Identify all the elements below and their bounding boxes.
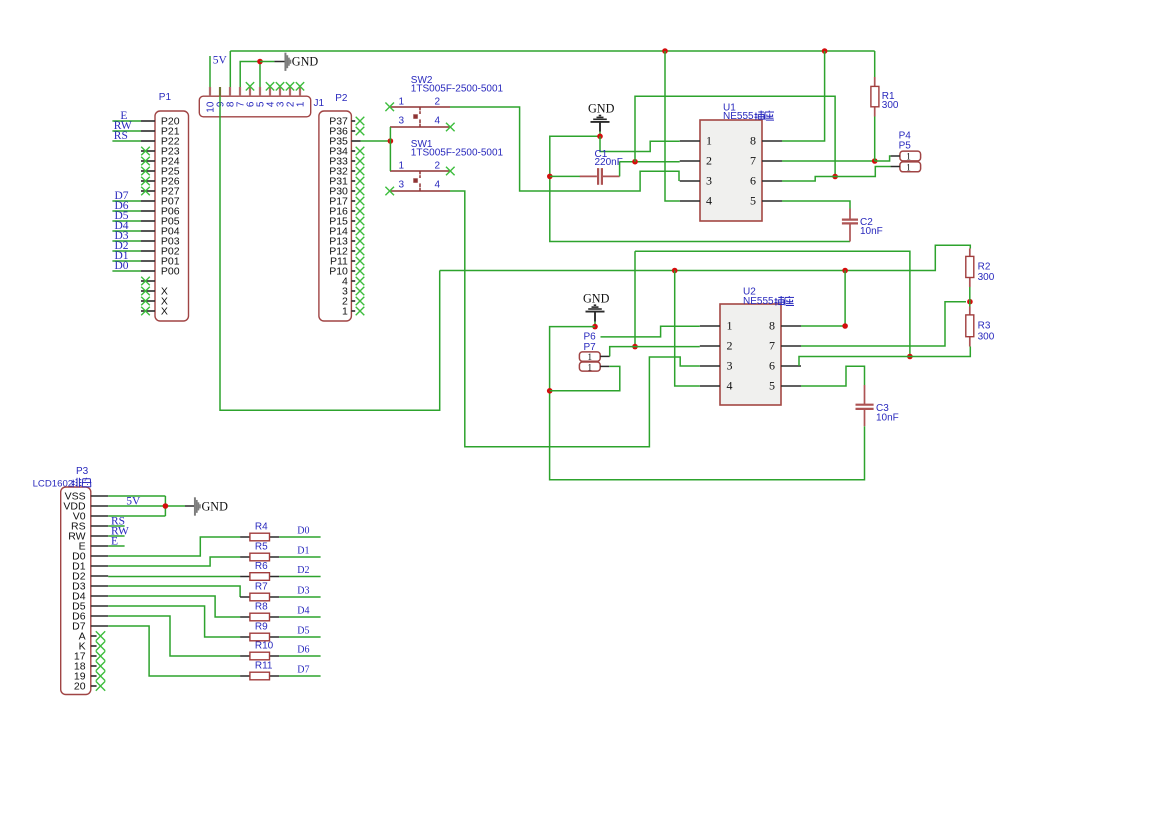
svg-text:D4: D4 [297, 606, 309, 617]
U2 refdes label [743, 287, 756, 298]
U1 value label NE555 socket [723, 111, 774, 122]
connector P7 box [579, 362, 609, 373]
wire P3 D5 to R9 [108, 606, 240, 637]
svg-text:NE555: NE555 [743, 296, 774, 307]
capacitor C1 [580, 168, 620, 185]
svg-text:E: E [111, 535, 118, 547]
R1 labels [882, 91, 899, 111]
junction P35 node [388, 138, 394, 144]
wire U1 pin8 riser [782, 51, 825, 141]
J1 pin stubs [210, 87, 300, 96]
svg-text:3: 3 [727, 359, 733, 373]
wire J1 pin9 down and up to VCC2 rail [220, 96, 440, 410]
wire P3 RW stub [108, 535, 124, 537]
svg-text:D0: D0 [115, 260, 129, 272]
net label 5V (P3) [126, 495, 141, 507]
wire C1 left lead [550, 175, 580, 177]
wire P3 D7 to R11 [108, 626, 240, 676]
svg-text:5: 5 [750, 194, 756, 208]
svg-text:300: 300 [882, 100, 899, 111]
junction U2 pin8 corner [842, 323, 848, 329]
svg-text:5: 5 [769, 379, 775, 393]
wire J1 pin7 to GND [240, 62, 260, 88]
resistor R9 [240, 633, 279, 641]
svg-text:5V: 5V [213, 55, 228, 67]
wire U1 pin2 line [620, 161, 680, 163]
svg-text:1TS005F-2500-5001: 1TS005F-2500-5001 [411, 148, 504, 159]
svg-text:220nF: 220nF [595, 157, 623, 168]
net label D5 (output) [297, 626, 309, 637]
junction J1 GND node [257, 59, 263, 65]
net label D6 [115, 200, 129, 212]
ground GND arrow (top) [260, 53, 318, 71]
wire P3 D0 to R4 [108, 537, 240, 556]
J1 no-connect X marks [246, 82, 304, 90]
svg-text:R8: R8 [255, 602, 268, 613]
P7 refdes label [584, 342, 597, 353]
svg-text:5V: 5V [126, 495, 141, 507]
svg-text:1TS005F-2500-5001: 1TS005F-2500-5001 [411, 84, 504, 95]
resistor R6 [240, 573, 279, 581]
wire C1 right riser to U1 pin2 [619, 162, 621, 177]
svg-text:3: 3 [399, 116, 405, 127]
junction C1 left node [547, 174, 553, 180]
C1 labels [595, 149, 623, 168]
svg-text:D7: D7 [297, 665, 309, 676]
SW2 pin1 no-connect X [385, 103, 394, 112]
IC U2 box [700, 304, 801, 405]
C2 labels [860, 217, 883, 237]
svg-text:D2: D2 [297, 565, 309, 576]
net label D3 [115, 230, 129, 242]
wire J1 pin5 riser [259, 62, 261, 88]
net label D3 (output) [297, 586, 309, 597]
wire U2 pin7 to R2/R3 mid [801, 302, 966, 346]
U1 refdes label [723, 103, 736, 114]
junction GND1 node [597, 134, 603, 140]
P1 no-connect X marks [141, 147, 150, 316]
svg-text:2: 2 [435, 97, 441, 108]
wire P6 pin riser to U2 pin2 line [610, 347, 700, 357]
svg-text:R6: R6 [255, 561, 268, 572]
svg-text:P00: P00 [161, 266, 180, 278]
net label RW (P3) [111, 525, 129, 537]
svg-text:1: 1 [399, 97, 405, 108]
resistor R7 [240, 593, 279, 601]
svg-text:6: 6 [750, 174, 756, 188]
net label RS (P3) [111, 515, 125, 527]
wire VCC2 rail y271 [440, 245, 971, 270]
wire R5 output [279, 556, 320, 558]
svg-text:R11: R11 [255, 661, 273, 672]
J1 refdes label [314, 98, 325, 109]
P2 no-connect X marks [356, 117, 365, 316]
svg-text:6: 6 [769, 359, 775, 373]
wire U2 pin8 riser [801, 271, 845, 327]
svg-text:2: 2 [706, 154, 712, 168]
U2 value label NE555 socket [743, 296, 794, 307]
wire U2 pin5 to C3 [801, 366, 865, 386]
wire GND2 to U2 pin1 [601, 326, 700, 337]
svg-text:8: 8 [750, 134, 756, 148]
svg-text:8: 8 [769, 319, 775, 333]
capacitor C3 [856, 385, 874, 426]
net label D6 (output) [297, 645, 309, 656]
ground GND2 earth symbol [583, 291, 610, 326]
wire R4 output [279, 536, 320, 538]
svg-text:300: 300 [978, 272, 995, 283]
R6 label [255, 561, 268, 572]
wire P3 RS stub [108, 525, 124, 527]
net label RS [114, 130, 128, 142]
junction top bus at U1 pin8 riser [822, 48, 828, 54]
net label E [120, 110, 127, 122]
svg-text:20: 20 [74, 681, 86, 693]
wire P3 VSS [108, 495, 165, 497]
net label D2 (output) [297, 565, 309, 576]
wire P3 D4 to R8 [108, 596, 240, 617]
R9 label [255, 622, 268, 633]
wire R6 output [279, 576, 320, 578]
J1 pin numbers [206, 101, 307, 113]
wire R8 output [279, 616, 320, 618]
switch SW1 labels [411, 139, 504, 159]
junction GND2 at P7 return [547, 388, 553, 394]
resistor R10 [240, 652, 279, 660]
P6 refdes label [584, 331, 597, 342]
op... IC U1 box [680, 120, 782, 221]
svg-text:10nF: 10nF [860, 226, 883, 237]
svg-text:1: 1 [296, 101, 307, 107]
P3 no-connect X marks [96, 631, 105, 690]
svg-text:R3: R3 [978, 321, 991, 332]
wire P3 E stub [108, 545, 124, 547]
wire 5V to J1 pin10 [209, 56, 211, 87]
net label 5V [213, 55, 228, 67]
resistor R2 [966, 249, 974, 302]
wire U1 pin7 to P4 [875, 156, 891, 161]
net label E (P3) [111, 535, 118, 547]
C3 labels [876, 403, 899, 423]
net label D7 [115, 190, 129, 202]
connector P5 box [891, 162, 921, 174]
svg-text:LCD1602: LCD1602 [33, 478, 74, 489]
capacitor C2 [842, 209, 858, 242]
svg-text:R10: R10 [255, 641, 274, 652]
wire R7 output [279, 596, 320, 598]
wire P3 D3 to R7 [108, 586, 240, 597]
wire U1 pin5 to C2 [782, 201, 850, 209]
svg-text:X: X [161, 306, 168, 318]
svg-text:D6: D6 [297, 645, 309, 656]
resistor R8 [240, 613, 279, 621]
svg-text:1: 1 [906, 164, 911, 174]
R11 label [255, 661, 273, 672]
svg-text:P6: P6 [584, 331, 597, 342]
svg-text:4: 4 [435, 180, 441, 191]
resistor R1 [871, 51, 879, 117]
switch SW2 [390, 97, 450, 127]
P2 refdes label [335, 93, 348, 104]
connector P3 box [61, 487, 108, 695]
wire R1 riser [874, 117, 876, 162]
wire GND1 net to C1 and C2 [550, 136, 850, 241]
svg-text:D1: D1 [297, 546, 309, 557]
wire SW2 pin2 to U1 pin3 [450, 107, 679, 191]
switch SW1 [390, 161, 450, 191]
wire R9 output [279, 636, 320, 638]
svg-text:D5: D5 [297, 626, 309, 637]
net label D0 [115, 260, 129, 272]
R7 label [255, 582, 268, 593]
wire P3 D1 to R5 [108, 557, 240, 566]
junction U1 pin2 node [632, 159, 638, 165]
svg-text:NE555: NE555 [723, 111, 754, 122]
wire P3 power riser [164, 496, 166, 516]
resistor R11 [240, 672, 279, 680]
svg-text:1: 1 [587, 363, 592, 373]
svg-text:2: 2 [727, 339, 733, 353]
net label D5 [115, 210, 129, 222]
svg-text:10nF: 10nF [876, 412, 899, 423]
connector P1 box [141, 111, 189, 321]
SW1 pin2 no-connect X [446, 167, 455, 176]
net label D1 [115, 250, 129, 262]
wire R10 output [279, 655, 320, 657]
wire P1 net stubs E RW RS D7-D0 [112, 121, 141, 271]
net label D0 (output) [297, 526, 309, 537]
junction net-B at P7 line [632, 344, 638, 350]
svg-text:P1: P1 [159, 92, 172, 103]
junction net-B at U2 pin6 line [907, 354, 913, 360]
connector P4 box [891, 151, 921, 163]
svg-text:R9: R9 [255, 622, 268, 633]
wire U1 pin4 riser [665, 51, 680, 201]
wire P3 D2 to R6 [108, 576, 240, 578]
svg-text:J1: J1 [314, 98, 325, 109]
svg-text:4: 4 [727, 379, 733, 393]
P3 value label LCD1602 socket [33, 478, 92, 490]
svg-text:7: 7 [769, 339, 775, 353]
svg-text:P5: P5 [899, 141, 912, 152]
junction top bus at U1 pin4 riser [662, 48, 668, 54]
wire U1 pin6 jog [782, 177, 835, 182]
svg-text:R7: R7 [255, 582, 268, 593]
junction R2 R3 mid node [967, 299, 973, 305]
wire J1 pin8 riser [229, 51, 231, 87]
P3 refdes label [76, 466, 89, 477]
ground GND1 earth symbol [588, 102, 615, 137]
wire U1 pin2 to pin6 top jog [635, 96, 835, 176]
wire P3 VDD [108, 505, 185, 507]
svg-text:GND: GND [202, 500, 229, 514]
svg-text:GND: GND [583, 291, 610, 305]
wire GND1 to U1 pin1 [600, 136, 680, 151]
connector P6 box [579, 352, 609, 363]
wire net-B riser to P7 line [634, 251, 636, 346]
junction P3 VDD node [163, 503, 169, 509]
ground GND arrow (P3) [185, 497, 228, 515]
wire 5V top bus [230, 50, 874, 52]
P5 refdes label [899, 141, 912, 152]
svg-text:4: 4 [435, 116, 441, 127]
svg-text:7: 7 [750, 154, 756, 168]
wire U1 pin6 node to P5 [835, 167, 891, 177]
wire P35 riser to SW2 pin3 and SW1 pin1 [389, 127, 391, 171]
R10 label [255, 641, 274, 652]
R5 label [255, 542, 268, 553]
svg-text:1: 1 [399, 161, 405, 172]
svg-text:GND: GND [292, 55, 319, 69]
svg-text:R4: R4 [255, 522, 268, 533]
wire J1 pin9 overlap [219, 87, 221, 96]
wire U2 pin6 jog [799, 347, 970, 367]
SW2 pin4 no-connect X [446, 123, 455, 132]
R3 labels [978, 321, 995, 343]
junction U1 pin6 node [832, 174, 838, 180]
junction VCC2 at U2 pin4 riser [672, 268, 678, 274]
wire P7 pin return to GND2 [550, 366, 620, 390]
svg-text:D3: D3 [297, 586, 309, 597]
svg-text:1: 1 [727, 319, 733, 333]
junction VCC2 at U2 pin8 riser [842, 268, 848, 274]
svg-text:R5: R5 [255, 542, 268, 553]
resistor R4 [240, 533, 279, 541]
svg-text:300: 300 [978, 332, 995, 343]
svg-text:P2: P2 [335, 93, 348, 104]
svg-text:3: 3 [706, 174, 712, 188]
net label RW [114, 120, 132, 132]
resistor R3 [966, 302, 974, 347]
P1 refdes label [159, 92, 172, 103]
svg-text:3: 3 [399, 180, 405, 191]
wire net-B rail y251 (U2 pin2/6) [635, 251, 910, 356]
svg-text:2: 2 [435, 161, 441, 172]
P4 refdes label [899, 131, 912, 142]
net label D2 [115, 240, 129, 252]
junction GND2 node [592, 324, 598, 330]
svg-text:GND: GND [588, 102, 615, 116]
net label D1 (output) [297, 546, 309, 557]
net label D4 [115, 220, 129, 232]
wire P2 P35 to switches [361, 140, 391, 142]
connector J1 box [199, 96, 310, 117]
SW1 pin3 no-connect X [385, 187, 394, 196]
resistor R5 [240, 553, 279, 561]
svg-text:R2: R2 [978, 262, 991, 273]
R8 label [255, 602, 268, 613]
junction U1 pin7 R1 node [872, 158, 878, 164]
svg-text:P3: P3 [76, 466, 89, 477]
wire U1 pin7 line [782, 160, 875, 162]
wire U2 pin4 riser [675, 271, 700, 387]
svg-text:1: 1 [342, 306, 348, 318]
svg-text:RS: RS [114, 130, 128, 142]
svg-text:D0: D0 [297, 526, 309, 537]
wire P3 D6 to R10 [108, 616, 240, 656]
net label D4 (output) [297, 606, 309, 617]
switch SW2 labels [411, 75, 504, 95]
svg-text:1: 1 [706, 134, 712, 148]
wire SW1 pin4 to U2 pin3 [450, 191, 700, 447]
wire R11 output [279, 675, 320, 677]
connector P2 box [319, 111, 361, 321]
svg-text:4: 4 [706, 194, 712, 208]
net label D7 (output) [297, 665, 309, 676]
R2 labels [978, 262, 995, 283]
wire GND2 net to C3 [550, 327, 865, 480]
R4 label [255, 522, 268, 533]
wire P3 V0 [108, 515, 165, 517]
